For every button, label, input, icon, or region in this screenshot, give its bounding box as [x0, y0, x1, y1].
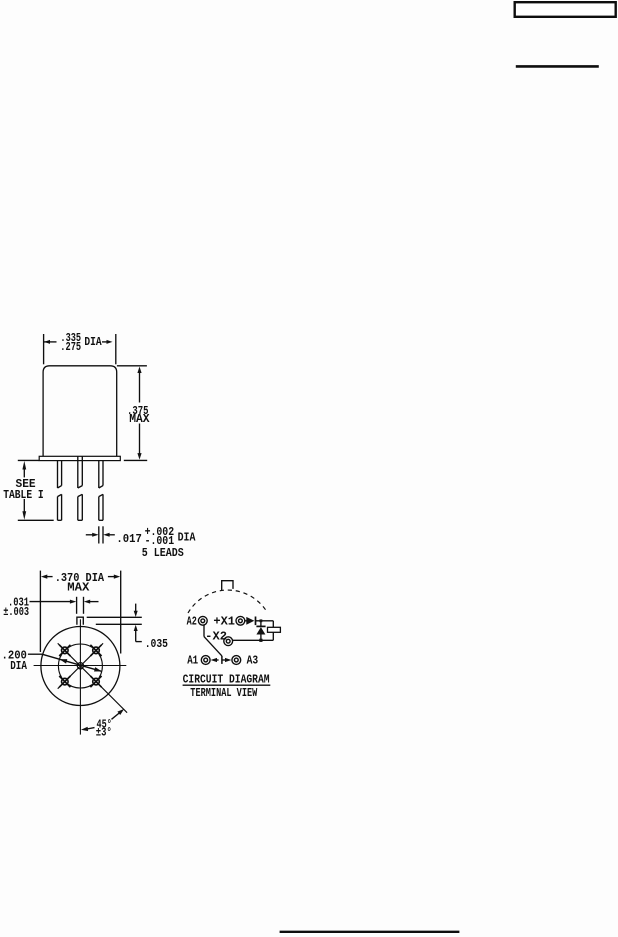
- svg-text:DIA: DIA: [84, 336, 101, 349]
- svg-text:A3: A3: [247, 655, 259, 668]
- svg-text:DIA: DIA: [10, 660, 27, 673]
- svg-text:CIRCUIT DIAGRAM: CIRCUIT DIAGRAM: [183, 674, 270, 687]
- svg-text:-X2: -X2: [205, 630, 227, 643]
- svg-text:TERMINAL VIEW: TERMINAL VIEW: [190, 687, 257, 700]
- svg-text:A1: A1: [187, 655, 198, 668]
- svg-text:±.003: ±.003: [3, 606, 29, 619]
- svg-text:.035: .035: [145, 638, 168, 651]
- svg-text:MAX: MAX: [67, 581, 89, 594]
- svg-text:.017: .017: [116, 533, 141, 546]
- svg-text:±3°: ±3°: [96, 726, 112, 739]
- svg-text:DIA: DIA: [178, 532, 196, 545]
- svg-text:MAX: MAX: [129, 413, 149, 426]
- svg-text:+X1: +X1: [213, 616, 235, 629]
- svg-text:A2: A2: [187, 616, 197, 629]
- svg-text:.275: .275: [60, 341, 81, 354]
- svg-text:5 LEADS: 5 LEADS: [142, 547, 184, 560]
- svg-text:TABLE I: TABLE I: [3, 489, 44, 502]
